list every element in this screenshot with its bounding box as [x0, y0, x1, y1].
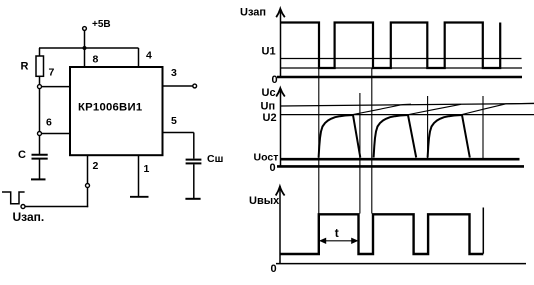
wire pin 6	[42, 133, 71, 135]
waveform Uc sawtooth 1	[319, 115, 361, 158]
junction supply node	[83, 46, 87, 50]
envelope continuation 2	[409, 104, 461, 114]
level line Up	[281, 104, 534, 107]
node pin7 junction	[38, 85, 42, 89]
svg-text:КР1006ВИ1: КР1006ВИ1	[78, 102, 142, 114]
wire supply vertical	[84, 30, 86, 48]
ground below C	[31, 178, 46, 180]
capacitor C	[32, 155, 48, 179]
wire top rail	[39, 47, 139, 49]
level line Uost	[281, 158, 520, 161]
svg-text:5: 5	[171, 115, 177, 127]
svg-text:6: 6	[46, 117, 52, 129]
resistor R	[36, 48, 44, 85]
power terminal +5V	[83, 19, 111, 30]
svg-text:Uзап.: Uзап.	[13, 210, 45, 224]
svg-text:t: t	[335, 226, 339, 240]
svg-text:8: 8	[93, 54, 99, 66]
node trigger junction	[86, 184, 90, 188]
timing line T5 trigger4	[482, 96, 484, 160]
capacitor Csh	[186, 160, 202, 199]
wire trigger vertical	[87, 188, 89, 208]
svg-text:0: 0	[271, 263, 277, 275]
node input terminal	[21, 205, 25, 209]
pin 1 lead	[138, 155, 140, 196]
wire to capacitor C	[39, 136, 41, 155]
ground pin 1	[130, 196, 149, 198]
axis X diagram2	[277, 165, 524, 168]
pin 5 lead	[163, 133, 194, 159]
svg-text:U2: U2	[263, 112, 277, 124]
svg-text:3: 3	[171, 67, 177, 79]
svg-text:Uзап: Uзап	[240, 7, 266, 19]
ground below Csh	[185, 198, 200, 200]
svg-text:0: 0	[272, 74, 278, 86]
axis Y diagram1 with arrow	[276, 9, 285, 77]
op-amp/IC U1 KR1006VI1 box	[70, 67, 163, 155]
wire rising edge cut pulse 4	[482, 208, 484, 254]
svg-text:2: 2	[93, 160, 99, 172]
waveform Uc sawtooth 3	[428, 115, 470, 158]
svg-text:7: 7	[49, 67, 55, 79]
waveform Uzap pulses	[281, 23, 500, 69]
waveform Uvykh pulses	[280, 214, 483, 254]
svg-text:С: С	[18, 149, 26, 161]
svg-text:R: R	[21, 61, 29, 73]
axis Y diagram2 with arrow	[276, 88, 285, 167]
svg-text:4: 4	[146, 50, 152, 62]
timing line T2 output fall1	[359, 93, 361, 214]
svg-text:U1: U1	[262, 46, 276, 58]
wire left vertical	[39, 89, 41, 132]
svg-text:Сш: Сш	[207, 153, 223, 165]
node pin6 junction	[38, 132, 42, 136]
svg-text:Uвых: Uвых	[249, 195, 280, 207]
timing line T3 trigger2	[371, 68, 373, 214]
pin 8 lead	[84, 48, 86, 67]
level line low	[281, 67, 522, 69]
annotation t width arrow	[319, 226, 358, 244]
level line U1	[281, 58, 522, 60]
pin 2 lead	[87, 155, 89, 184]
svg-text:1: 1	[144, 163, 150, 175]
axis X diagram1	[277, 76, 522, 79]
svg-text:Uс: Uс	[262, 87, 276, 99]
svg-text:+5В: +5В	[92, 19, 111, 30]
node output terminal 3	[193, 84, 197, 88]
pin 3 lead	[163, 85, 194, 87]
timing line T1 trigger1	[318, 68, 320, 214]
svg-text:Uп: Uп	[261, 101, 276, 113]
envelope continuation 3	[462, 103, 534, 114]
pin 4 lead	[138, 48, 140, 67]
wire pin 7	[42, 86, 71, 88]
envelope continuation 1	[353, 104, 411, 114]
input pulse symbol	[2, 192, 25, 204]
wire trigger horizontal	[25, 206, 88, 208]
axis Y diagram3 with arrow	[276, 186, 285, 264]
waveform Uc sawtooth 2	[374, 115, 417, 158]
axis X diagram3	[276, 263, 526, 265]
svg-text:0: 0	[270, 162, 276, 174]
level line U2	[281, 114, 534, 116]
timing line T4 trigger3	[427, 96, 429, 160]
